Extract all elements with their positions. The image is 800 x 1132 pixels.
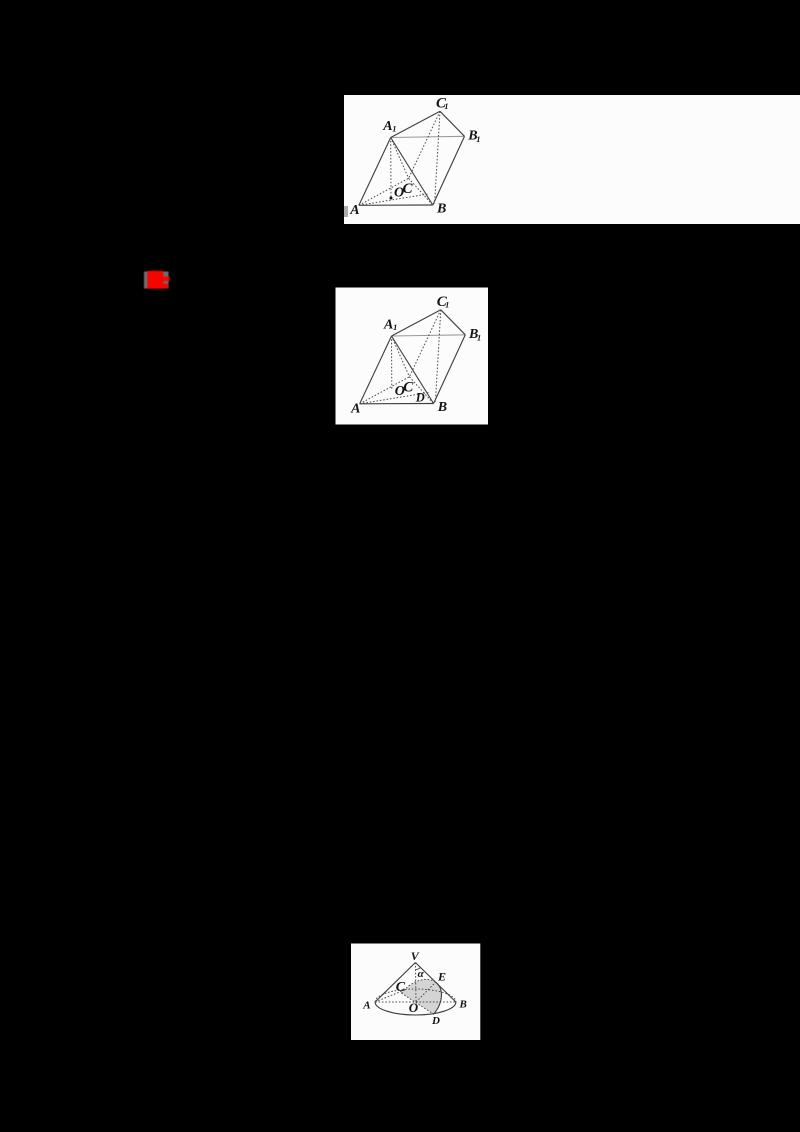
svg-text:A: A: [350, 401, 360, 416]
svg-text:A: A: [383, 318, 393, 333]
svg-text:B: B: [437, 400, 447, 415]
svg-text:1: 1: [444, 101, 448, 111]
svg-text:C: C: [403, 181, 414, 197]
svg-text:O: O: [409, 1000, 419, 1015]
svg-text:D: D: [431, 1015, 440, 1027]
svg-text:1: 1: [393, 322, 397, 332]
svg-text:1: 1: [477, 332, 481, 342]
svg-text:V: V: [411, 949, 420, 963]
svg-text:A: A: [349, 203, 359, 218]
svg-text:B: B: [436, 201, 446, 216]
svg-text:1: 1: [445, 300, 449, 310]
svg-text:C: C: [396, 980, 406, 995]
svg-text:E: E: [437, 970, 446, 984]
svg-text:C: C: [403, 380, 414, 396]
svg-text:1: 1: [392, 124, 396, 134]
svg-text:α: α: [418, 968, 425, 980]
svg-text:1: 1: [476, 134, 480, 144]
svg-text:B: B: [459, 999, 467, 1011]
svg-text:A: A: [362, 1000, 370, 1012]
svg-text:A: A: [382, 119, 392, 134]
svg-text:D: D: [415, 391, 425, 405]
